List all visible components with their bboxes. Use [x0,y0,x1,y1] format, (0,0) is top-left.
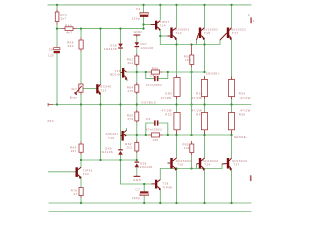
svg-text:T23: T23 [100,88,106,92]
svg-text:R56: R56 [196,92,203,96]
svg-text:1: 1 [253,19,255,23]
svg-text:1N4148: 1N4148 [141,46,154,50]
svg-text:220p: 220p [132,16,140,20]
svg-text:120: 120 [48,54,54,58]
svg-text:2k7: 2k7 [71,149,77,153]
svg-text:DR2: DR2 [165,92,172,96]
svg-text:T16: T16 [177,163,183,167]
svg-text:T17: T17 [233,163,239,167]
svg-text:.47/2W: .47/2W [160,96,172,100]
svg-text:T14: T14 [204,163,210,167]
svg-text:SENSE-: SENSE- [234,135,248,139]
svg-text:2: 2 [248,13,250,17]
svg-text:47: 47 [73,192,77,196]
svg-text:R53: R53 [165,112,172,116]
svg-text:4k7: 4k7 [71,87,77,91]
svg-text:220p: 220p [132,196,140,200]
svg-text:C3: C3 [136,7,141,11]
svg-text:R58: R58 [239,112,246,116]
svg-text:C8: C8 [49,47,54,51]
svg-text:R57: R57 [196,112,203,116]
svg-text:2k2: 2k2 [128,61,134,65]
svg-text:T14: T14 [160,24,166,28]
svg-text:GND: GND [133,178,142,182]
svg-text:360: 360 [68,44,74,48]
svg-text:T13: T13 [176,31,182,35]
svg-text:OUTBUS: OUTBUS [141,101,156,105]
svg-text:BD140: BD140 [110,73,121,77]
svg-text:470: 470 [127,117,133,121]
svg-text:47n/250U: 47n/250U [146,83,162,87]
svg-text:.47/2W: .47/2W [239,96,251,100]
svg-text:C7: C7 [136,187,141,191]
svg-text:.47/2W: .47/2W [190,96,202,100]
svg-text:2k2: 2k2 [126,146,132,150]
svg-text:T19: T19 [108,136,114,140]
svg-text:R60: R60 [65,23,72,27]
svg-text:T15: T15 [204,31,210,35]
svg-text:4k7: 4k7 [66,30,72,34]
svg-text:TIP48: TIP48 [162,185,172,189]
svg-text:SENSE+: SENSE+ [206,71,220,75]
svg-text:250: 250 [47,119,54,123]
svg-text:470: 470 [127,89,133,93]
svg-text:C5: C5 [146,117,151,121]
svg-text:2k7: 2k7 [61,17,67,21]
svg-text:47n/250U: 47n/250U [146,128,162,132]
svg-text:Bias: Bias [70,96,78,100]
svg-text:T22: T22 [83,172,89,176]
svg-text:1N4148: 1N4148 [100,150,113,154]
svg-text:1N4148: 1N4148 [104,47,117,51]
svg-text:100: 100 [153,138,159,142]
svg-text:R68: R68 [152,67,159,71]
svg-text:100: 100 [185,58,191,62]
svg-text:T17: T17 [232,31,238,35]
svg-text:100: 100 [184,146,190,150]
svg-text:C4: C4 [150,74,155,78]
svg-text:GND: GND [134,30,143,34]
svg-text:1N4148: 1N4148 [140,165,153,169]
